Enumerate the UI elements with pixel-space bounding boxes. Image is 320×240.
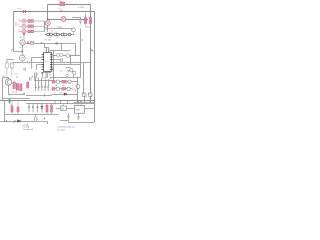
relay coil row2 circle [56, 87, 60, 91]
regulator box U2 [75, 105, 85, 113]
resistor R8 pink vertical [27, 82, 29, 88]
transistor Q2 right [76, 85, 80, 89]
IC U1 body [44, 53, 52, 72]
svg-text:Gn: Gn [15, 74, 18, 76]
wire left edge top stub [3, 78, 9, 79]
switch S1 on bus B [60, 10, 64, 12]
svg-text:S2: S2 [51, 30, 53, 32]
earth green below M2 [45, 28, 47, 30]
capacitor on x31.6 [31, 66, 33, 69]
junction dot [14, 114, 15, 115]
resistor R7 pink vertical [20, 84, 22, 91]
breaker contact row3 pink box [26, 30, 44, 33]
resistor R10 pink vertical [11, 101, 13, 115]
wire IC right row y55.4 [53, 55, 57, 57]
resistor R21 vertical pink [90, 18, 92, 24]
svg-text:3 = mains 16: 3 = mains 16 [23, 129, 33, 131]
wire below boxes [74, 96, 95, 102]
wire bus C [48, 19, 89, 21]
resistor R20 vertical pink [85, 12, 91, 28]
wire vertical x70.4 [70, 56, 72, 65]
red dot mark [82, 40, 83, 41]
pink tick left of B1 [74, 89, 76, 91]
green dot bottom [44, 118, 45, 119]
IC pins left [42, 55, 44, 70]
diode on y121 [18, 120, 21, 123]
green dots row1 [56, 85, 57, 86]
switch on left vertical [11, 49, 13, 52]
wire right edge vertical from bus B [94, 12, 96, 123]
vertical wires to cap row [36, 77, 49, 86]
relay circle chain right [72, 28, 76, 35]
box component dark on motor row [31, 41, 34, 44]
svg-text:schematic with 1 µ: schematic with 1 µ [58, 126, 76, 129]
wire below M1 [21, 45, 23, 51]
green dot [23, 93, 24, 94]
svg-text:L·N·P: L·N·P [78, 6, 85, 9]
ground below regulator [77, 113, 80, 119]
wire joining rows [44, 21, 46, 32]
fuse F1 on bus B [23, 10, 26, 13]
green dots pair [16, 76, 17, 77]
capacitor C7 on wire to IC [28, 61, 29, 63]
resistor R2 outline vertical [6, 63, 9, 78]
wire row3 [52, 94, 78, 96]
wire left T1 to resistors [7, 60, 22, 64]
capacitor pair below IC a [36, 72, 38, 77]
svg-text:K1M: K1M [58, 26, 62, 28]
svg-text:3~: 3~ [20, 47, 22, 49]
relay contact row1b pink box [62, 80, 66, 83]
caps small above [30, 77, 32, 81]
vertical below IC left [34, 73, 36, 81]
wire to relay circle [63, 55, 66, 57]
relay contact row2b pink box [62, 88, 66, 91]
transformer T1 circle [19, 55, 25, 61]
junction dot y62.5 x90.5 [90, 62, 91, 63]
component blob on bottom line [55, 43, 58, 45]
resistor R3 outline vertical [11, 63, 14, 77]
inductor chain L filter [45, 33, 72, 36]
capacitor bank bottom: cap3 [37, 104, 39, 113]
small box B2 [89, 93, 93, 96]
breaker contact row2 pink box [26, 25, 44, 28]
resistor R12 pink vertical [46, 104, 48, 115]
wire IC left pin y57 branch [32, 58, 42, 67]
junction dots on y121 [6, 120, 7, 121]
svg-text:D1: D1 [44, 78, 46, 80]
junction T1 top [22, 51, 23, 52]
wire left vertical x13 [13, 12, 15, 52]
wire vertical x53.2 [53, 51, 55, 81]
optocoupler circle b [73, 71, 76, 74]
motor M2 pink circle [45, 21, 50, 26]
wire below IC [41, 72, 51, 74]
wire chain top line [48, 28, 73, 30]
resistor R11 pink vertical [17, 101, 19, 115]
wire stub y16.8 right [72, 18, 81, 21]
main bottom bus 1 [0, 100, 95, 102]
wire bus A top [48, 4, 91, 6]
mixed comp below IC c [46, 73, 48, 78]
small box B3 left of regulator [61, 104, 67, 111]
relay coil row1 circle [56, 80, 60, 84]
wire stub below opto [73, 75, 75, 78]
optocoupler circle a [70, 69, 73, 72]
overload X below K1 [23, 33, 25, 40]
wire bottom right horizontal [60, 121, 95, 123]
contactor pole K1 row2 circle [19, 24, 27, 28]
resistor R6 pink vertical [16, 84, 18, 91]
resistor R5 pink vertical [13, 82, 15, 89]
pink dot [32, 76, 33, 77]
capacitor pink small [28, 41, 29, 44]
wire right edge vertical from bus A [90, 5, 92, 104]
junction bus C [47, 18, 48, 19]
capacitor bank row [35, 86, 49, 91]
component on row y59.8 [53, 59, 63, 61]
wire vertical from bus A to motor M2 [47, 5, 49, 21]
wire IC right row y50.5 [50, 51, 71, 53]
wire T1 to IC pin [22, 62, 41, 64]
wire bus under caps [26, 95, 52, 97]
wire row2 [55, 88, 72, 90]
relay coil row1b circle [68, 80, 72, 84]
capacitor pair below T1 [24, 68, 26, 71]
svg-text:R5 R6: R5 R6 [12, 92, 17, 94]
svg-text:on timer: on timer [58, 128, 66, 131]
lamp H1 [61, 17, 66, 22]
wire left edge vertical [2, 78, 4, 101]
wire motor row right [25, 43, 44, 45]
svg-text:D3: D3 [60, 92, 62, 94]
transistor Q1 circle [5, 79, 11, 85]
tick marks above chain [50, 32, 64, 33]
green dot left below IC [34, 76, 35, 77]
motor M1 circle [20, 40, 25, 45]
wire vertical x61 [61, 44, 63, 51]
wire verticals right bottom [78, 63, 91, 103]
wire transistor bottom [9, 85, 26, 94]
cap below regulator [68, 113, 70, 120]
pink dot below IC [49, 74, 50, 75]
wire vertical below M2 [47, 26, 49, 32]
wire regulator top stubs [78, 104, 81, 106]
stub below junction [13, 122, 15, 124]
fuse F4 on bus A [60, 2, 65, 5]
diode vertical bottom [41, 104, 43, 113]
svg-text:T2: T2 [60, 71, 62, 73]
diode on row3 [64, 93, 67, 96]
wire bus B [14, 11, 95, 13]
pink dot on cap row [45, 86, 46, 87]
wire relay row1 left feed [35, 80, 53, 82]
small circle comp right below IC [66, 74, 69, 77]
main bottom bus 2 [26, 103, 95, 105]
contactor pole K1 row1 circle [19, 19, 27, 23]
breaker contact row1 pink box [26, 20, 44, 23]
wire enclosure top [54, 64, 81, 66]
capacitor C9 green [79, 21, 81, 25]
svg-text:B2: B2 [15, 25, 17, 27]
led dot above R21 [90, 15, 91, 16]
wire horizontal y114.5 [5, 114, 59, 116]
green component vertical [44, 93, 46, 96]
relay contact row1 pink box [52, 80, 55, 83]
wire enclosure bottom [50, 77, 81, 79]
capacitor bank bottom: cap1 [28, 104, 30, 113]
relay circle right [66, 54, 81, 58]
wire from left vertical to T1 [14, 52, 23, 56]
varistor pair gray [57, 53, 63, 56]
tiny value labels below chain [50, 36, 66, 38]
switch on right vertical [91, 48, 94, 51]
capacitor bank bottom: cap2 [32, 104, 34, 113]
wire chain bottom line [45, 43, 76, 45]
wire left bottom vertical [4, 101, 6, 122]
pink X in opto region [67, 70, 69, 72]
cap C11 [35, 115, 37, 122]
wire vertical x80 long [80, 29, 82, 78]
small box B1 [83, 93, 87, 96]
relay contact row2 pink box [52, 88, 55, 91]
caps between buses [55, 101, 67, 104]
ticks on x53.2 [52, 68, 54, 71]
junction dot motor row [41, 42, 42, 43]
svg-text:K1 M2: K1 M2 [45, 40, 52, 42]
IC pins right [50, 55, 53, 70]
junction dot chain bottom [61, 43, 62, 44]
capacitor pair below IC b [42, 72, 44, 77]
wire under T1 [21, 61, 23, 62]
svg-text:F2t: F2t [20, 36, 23, 39]
wire corner to IC top [45, 44, 49, 53]
wire vertical x75.8 down [75, 44, 77, 56]
resistor R13 pink vertical [51, 104, 53, 115]
svg-text:a: a [24, 14, 25, 16]
svg-text:REG: REG [76, 109, 81, 111]
wire row1 [55, 81, 78, 83]
green dots above regulator [77, 101, 78, 102]
svg-text:K2: K2 [72, 89, 74, 91]
wire horizontal y98 [3, 98, 31, 100]
svg-text:R9: R9 [49, 78, 51, 80]
relay coil row2b circle [67, 87, 71, 91]
led dot above R20 [85, 15, 86, 16]
wire IC left pin y64.5 branch [37, 65, 42, 71]
wire horizontal y121 [0, 122, 48, 125]
opto internal wire [66, 67, 71, 69]
contactor pole K1 row3 circle [19, 29, 27, 33]
green arrow component on bus [8, 98, 10, 103]
wires around regulator [56, 108, 95, 110]
wire IC right row y62.3 [53, 62, 91, 64]
